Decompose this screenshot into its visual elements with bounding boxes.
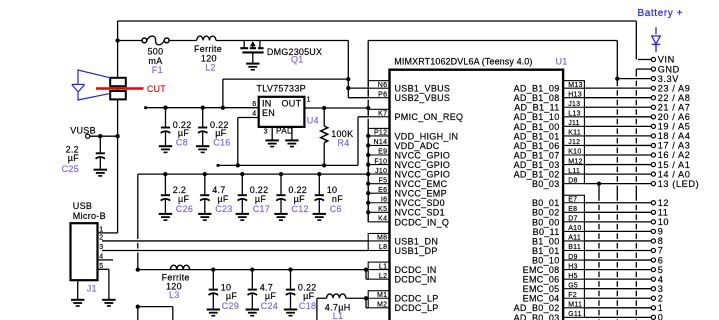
junction C16 tap	[201, 106, 205, 110]
capacitor C12 0.22µF	[274, 174, 287, 220]
svg-text:B1_01: B1_01	[532, 246, 560, 256]
svg-text:F10: F10	[374, 158, 387, 165]
svg-text:AD_B1_06: AD_B1_06	[514, 141, 560, 151]
svg-text:C18: C18	[299, 301, 316, 311]
svg-text:CUT: CUT	[147, 84, 166, 94]
wire to pad 8	[584, 240, 651, 242]
svg-text:L13: L13	[568, 111, 581, 118]
svg-text:13 (LED): 13 (LED)	[658, 179, 700, 189]
junction 3.3V bus pin row 6	[366, 143, 370, 147]
svg-text:H13: H13	[568, 91, 582, 98]
svg-text:L1: L1	[379, 263, 387, 270]
wire U4 OUT to 3.3V bus	[304, 107, 368, 109]
capacitor C16 0.22uF	[196, 108, 209, 153]
wire branch to DCDC_LP M2 pin	[365, 298, 367, 308]
svg-text:EMC_04: EMC_04	[523, 294, 560, 304]
svg-text:B1_00: B1_00	[532, 236, 560, 246]
svg-text:R4: R4	[337, 138, 349, 148]
svg-text:USB1_VBUS: USB1_VBUS	[395, 84, 451, 94]
svg-text:11: 11	[658, 208, 669, 218]
junction C26 tap	[163, 172, 167, 176]
svg-text:M1: M1	[377, 292, 387, 299]
pad circle 5	[651, 268, 655, 272]
svg-text:DCDC_IN: DCDC_IN	[395, 265, 437, 275]
resistor R4 100K	[321, 108, 328, 165]
wire to pad 11	[584, 211, 651, 213]
svg-text:E8: E8	[568, 206, 577, 213]
pad circle 23 / A9	[651, 86, 655, 90]
junction pin 13 LED tap	[597, 182, 601, 186]
wire 5V fuse feed to fuse F1	[118, 40, 142, 42]
svg-text:D8: D8	[568, 177, 578, 184]
junction 3.3V bus pin row 9	[366, 172, 370, 176]
U1 pin number cells left K7-K7	[368, 109, 389, 117]
svg-text:EMC_06: EMC_06	[523, 275, 560, 285]
svg-text:M8: M8	[377, 235, 387, 242]
svg-text:J1: J1	[87, 283, 97, 293]
pad circle 14 / A0	[651, 172, 655, 176]
svg-text:K11: K11	[568, 130, 581, 137]
svg-text:2: 2	[658, 293, 664, 303]
svg-text:USB1_DP: USB1_DP	[395, 246, 438, 256]
svg-text:20 / A6: 20 / A6	[658, 112, 691, 122]
inductor ferrite L3	[170, 265, 189, 269]
junction 3.3V bus pin row 10	[366, 182, 370, 186]
pad circle 15 / A1	[651, 162, 655, 166]
svg-text:AD_B1_01: AD_B1_01	[514, 131, 560, 141]
svg-text:A11: A11	[568, 235, 581, 242]
svg-text:C24: C24	[261, 301, 278, 311]
wire to pad 7	[584, 250, 651, 252]
wire regulator input rail	[146, 107, 259, 109]
wire VIN riser	[635, 21, 637, 60]
svg-text:P12: P12	[374, 130, 387, 137]
junction C24 tap	[250, 267, 254, 271]
junction R4 top	[322, 106, 326, 110]
pad circle 13 (LED)	[651, 182, 655, 186]
svg-text:3.3V: 3.3V	[658, 74, 680, 84]
wire J1 pin1 riser to cut-pad column	[102, 232, 118, 234]
junction C25 tap	[98, 134, 102, 138]
wire J1 pin4 stub	[98, 259, 114, 261]
ground for Q1 gate	[246, 64, 259, 70]
wire NVCC cap rail	[138, 173, 368, 175]
svg-text:F1: F1	[152, 65, 163, 75]
svg-text:USB2_VBUS: USB2_VBUS	[395, 93, 451, 103]
svg-text:PMIC_ON_REQ: PMIC_ON_REQ	[395, 112, 464, 122]
wire VUSB top rail from cut-pad column to VIN riser	[118, 20, 637, 22]
wire to pad 15 / A1	[584, 164, 651, 166]
junction R4 bottom	[322, 163, 326, 167]
svg-text:17 / A3: 17 / A3	[658, 141, 691, 151]
U1 pin number cells left N6-P6	[368, 81, 389, 98]
capacitor C23 4.7µF	[198, 174, 211, 220]
wire branch to DCDC_IN L2 pin	[365, 270, 367, 280]
svg-text:B0_01: B0_01	[532, 198, 560, 208]
junction C17 tap	[240, 172, 244, 176]
svg-text:PAD: PAD	[276, 126, 293, 136]
svg-text:D9: D9	[568, 254, 578, 261]
svg-text:E7: E7	[568, 196, 577, 203]
svg-text:19 / A5: 19 / A5	[658, 122, 691, 132]
svg-text:18 / A4: 18 / A4	[658, 131, 691, 141]
svg-text:AD_B1_00: AD_B1_00	[514, 122, 560, 132]
fuse F1 500mA	[142, 36, 169, 45]
wire EN-PMIC net horizontal	[218, 164, 358, 166]
wire to pad 5	[584, 269, 651, 271]
U1 pin number cells right M13-D8	[563, 81, 584, 184]
svg-text:K10: K10	[568, 149, 581, 156]
svg-text:USB1_DN: USB1_DN	[395, 236, 439, 246]
wire to pad 17 / A3	[584, 144, 651, 146]
ground for J1 pin5	[102, 300, 115, 306]
pad circle 12	[651, 201, 655, 205]
wire to pad GND	[636, 68, 651, 70]
wire to pad 12	[584, 202, 651, 204]
svg-text:µF: µF	[255, 194, 266, 204]
wire USB1_DP from J1 pin3 to U1	[102, 250, 368, 252]
capacitor C25 2.2uF	[94, 136, 107, 176]
wire to pad 1	[584, 307, 651, 309]
svg-text:AD_B1_09: AD_B1_09	[514, 84, 560, 94]
svg-text:µF: µF	[294, 194, 305, 204]
svg-text:3: 3	[99, 244, 103, 251]
wire left riser to bottom edge	[137, 307, 139, 320]
junction C23 tap	[203, 172, 207, 176]
svg-text:23 / A9: 23 / A9	[658, 83, 691, 93]
svg-text:K4: K4	[378, 216, 387, 223]
wire U4 PAD ground stub	[291, 127, 293, 140]
svg-text:J12: J12	[568, 139, 580, 146]
wire to pad 10	[584, 221, 651, 223]
svg-text:9: 9	[658, 227, 664, 237]
svg-text:MIMXRT1062DVL6A (Teensy 4.0): MIMXRT1062DVL6A (Teensy 4.0)	[394, 57, 532, 67]
wire 3.3V riser	[616, 41, 618, 87]
wire USB1_VBUS pin stub	[348, 87, 368, 89]
capacitor C26 2.2µF	[159, 174, 172, 220]
svg-text:P6: P6	[378, 91, 387, 98]
wire red CUT marker	[96, 87, 144, 90]
pad circle 19 / A5	[651, 124, 655, 128]
svg-text:U4: U4	[307, 115, 319, 125]
svg-text:L3: L3	[169, 290, 180, 300]
svg-text:F2: F2	[568, 292, 577, 299]
wire J1 pin1 stub	[98, 232, 103, 234]
wire to pad VIN	[638, 59, 651, 61]
svg-text:N6: N6	[378, 82, 388, 89]
wire to pad 18 / A4	[584, 135, 651, 137]
wire to pad 22 / A8	[584, 97, 651, 99]
capacitor C24 4.7uF	[246, 270, 259, 316]
svg-text:DCDC_IN: DCDC_IN	[395, 275, 437, 285]
wire to pad 20 / A6	[584, 116, 651, 118]
svg-text:AD_B1_11: AD_B1_11	[514, 103, 559, 113]
svg-text:M11: M11	[568, 302, 582, 309]
svg-text:C23: C23	[215, 204, 232, 214]
svg-text:C26: C26	[176, 204, 193, 214]
svg-text:IN: IN	[262, 99, 272, 109]
svg-text:VUSB: VUSB	[70, 125, 96, 135]
wire J1 shield ground drop	[77, 280, 79, 299]
wire to pad 19 / A5	[584, 125, 651, 127]
junction 3.3V bus pin row 7	[366, 153, 370, 157]
svg-text:C12: C12	[291, 204, 308, 214]
svg-text:B11: B11	[568, 244, 581, 251]
svg-text:NVCC_EMC: NVCC_EMC	[395, 179, 448, 189]
svg-text:µF: µF	[265, 291, 276, 301]
capacitor C8 0.22uF	[159, 108, 172, 153]
svg-text:2: 2	[99, 235, 103, 242]
svg-text:USB: USB	[73, 201, 92, 211]
diode battery isolation (blue)	[652, 27, 661, 52]
U1 pin number cells left M1-M2	[368, 291, 389, 308]
svg-text:TLV75733P: TLV75733P	[256, 84, 306, 94]
wire VBUS drop to USB VBUS pins	[347, 41, 349, 98]
junction 3.3V pad tap	[615, 76, 619, 80]
svg-text:OUT: OUT	[282, 99, 302, 109]
pad circle VIN	[651, 57, 655, 61]
svg-text:Micro-B: Micro-B	[73, 211, 106, 221]
wire to pad 23 / A9	[584, 87, 651, 89]
svg-text:M2: M2	[377, 302, 387, 309]
svg-text:L2: L2	[205, 63, 216, 73]
wire 3.3V vertical bus at U1 left edge	[367, 41, 369, 87]
junction C6 tap	[317, 172, 321, 176]
pad circle 8	[651, 239, 655, 243]
svg-text:G5: G5	[568, 282, 578, 289]
junction bottom-left rail	[136, 304, 140, 308]
svg-text:12: 12	[658, 198, 669, 208]
solder pad top (cut jumper)	[110, 78, 126, 86]
svg-text:L1: L1	[333, 311, 344, 320]
svg-text:GND: GND	[658, 64, 680, 74]
svg-text:µF: µF	[215, 128, 226, 138]
svg-text:NVCC_GPIO: NVCC_GPIO	[395, 150, 451, 160]
IC U1 MIMXRT1062DVL6A body	[390, 70, 564, 320]
svg-text:D7: D7	[568, 216, 578, 223]
svg-text:N14: N14	[374, 139, 388, 146]
ground for U4 pin3	[266, 140, 279, 146]
wire J1 pin5 ground drop	[108, 269, 110, 299]
U1 pin number cells left L1-L2	[368, 262, 389, 279]
pad circle 0	[651, 315, 655, 319]
wire vertical VUSB/cut-pad column x=117.6	[117, 21, 119, 233]
wire DCDC_IN rail	[138, 269, 368, 271]
svg-text:L11: L11	[568, 168, 580, 175]
wire PMIC_ON_REQ stub	[358, 116, 368, 118]
pad circle 18 / A4	[651, 134, 655, 138]
svg-text:M12: M12	[568, 158, 583, 165]
ground for U4 PAD	[285, 140, 298, 146]
svg-text:µF: µF	[303, 291, 314, 301]
svg-text:AD_B0_03: AD_B0_03	[514, 313, 560, 320]
wire to pad 4	[584, 278, 651, 280]
U1 pin number cells right E7-G11	[563, 195, 584, 317]
junction 3.3V bus pin row 5	[366, 134, 370, 138]
wire USB1_DN from J1 pin2 to U1	[102, 240, 368, 242]
wire bottom-left rail	[137, 306, 173, 308]
svg-text:K7: K7	[378, 111, 387, 118]
svg-text:C29: C29	[222, 301, 239, 311]
svg-text:DCDC_LP: DCDC_LP	[395, 294, 439, 304]
wire GND riser	[635, 69, 637, 77]
wire to pad 2	[584, 297, 651, 299]
solder pad bottom (cut jumper)	[110, 91, 126, 99]
junction DCDC_LP branch	[364, 296, 368, 300]
capacitor C29 10uF	[207, 270, 220, 316]
svg-text:1: 1	[658, 303, 664, 313]
svg-text:15 / A1: 15 / A1	[658, 160, 691, 170]
svg-text:H3: H3	[568, 263, 578, 270]
pad circle 21 / A7	[651, 105, 655, 109]
pad circle 17 / A3	[651, 143, 655, 147]
wire to pad 16 / A2	[584, 154, 651, 156]
svg-text:AD_B1_03: AD_B1_03	[514, 160, 560, 170]
junction VBUS feed tap	[221, 106, 225, 110]
wire USB2_VBUS pin stub	[348, 97, 368, 99]
junction DCDC_IN to L2 pin branch	[364, 267, 368, 271]
svg-text:J13: J13	[568, 101, 580, 108]
svg-text:AD_B1_10: AD_B1_10	[514, 112, 560, 122]
svg-text:10: 10	[658, 217, 669, 227]
pad circle 3.3V	[651, 77, 655, 81]
svg-text:B0_02: B0_02	[532, 208, 560, 218]
svg-text:DCDC_IN_Q: DCDC_IN_Q	[395, 217, 450, 227]
U1 pin number cells left P12-K4	[368, 128, 389, 221]
junction EN riser	[236, 163, 240, 167]
svg-text:C25: C25	[62, 164, 79, 174]
wire VBUS feed riser	[222, 79, 224, 108]
svg-text:nF: nF	[332, 194, 343, 204]
svg-text:E6: E6	[378, 187, 387, 194]
svg-text:VIN: VIN	[658, 55, 675, 65]
svg-text:G11: G11	[568, 311, 582, 318]
svg-text:µF: µF	[217, 194, 228, 204]
svg-text:AD_B1_02: AD_B1_02	[514, 170, 560, 180]
wire fuse to ferrite L2	[169, 40, 197, 42]
svg-text:1: 1	[307, 97, 311, 104]
pad circle 4	[651, 277, 655, 281]
svg-text:J11: J11	[568, 120, 580, 127]
wire VBUS feed horizontal	[223, 78, 349, 80]
connector J1 body	[71, 223, 98, 280]
wire L1 to DCDC_LP pin	[346, 297, 368, 299]
pad circle 11	[651, 210, 655, 214]
capacitor C18 0.22uF	[284, 270, 297, 316]
junction 3.3V bus pin row 8	[366, 162, 370, 166]
pad circle 7	[651, 248, 655, 252]
pad circle 20 / A6	[651, 115, 655, 119]
junction USB1_VBUS	[346, 86, 350, 90]
pad circle GND	[651, 67, 655, 71]
junction VUSB column	[115, 134, 119, 138]
wire U4 pin3 ground stub	[271, 127, 273, 140]
pad circle 10	[651, 220, 655, 224]
svg-text:0: 0	[658, 313, 664, 320]
svg-text:B0_11: B0_11	[533, 227, 560, 237]
junction C29 tap	[211, 267, 215, 271]
end square regulator input rail	[144, 106, 147, 109]
end square EN net	[217, 164, 220, 167]
svg-text:F5: F5	[379, 177, 388, 184]
svg-text:8: 8	[658, 236, 664, 246]
junction VBUS feed	[346, 77, 350, 81]
wire to pad 3.3V	[617, 78, 651, 80]
svg-text:DCDC_LP: DCDC_LP	[395, 303, 439, 313]
inductor ferrite L2	[197, 36, 216, 40]
junction C18 tap	[288, 267, 292, 271]
pad circle 6	[651, 258, 655, 262]
svg-text:L2: L2	[379, 273, 387, 280]
wire U4 EN stub	[238, 117, 259, 119]
svg-text:M13: M13	[568, 82, 583, 89]
svg-text:7: 7	[658, 246, 664, 256]
junction OUT at 3.3V bus	[366, 106, 370, 110]
svg-text:Q1: Q1	[291, 55, 304, 65]
wire to pad 14 / A0	[584, 173, 651, 175]
svg-text:VDD_HIGH_IN: VDD_HIGH_IN	[395, 131, 459, 141]
svg-text:21 / A7: 21 / A7	[658, 102, 691, 112]
pad circle 9	[651, 229, 655, 233]
junction C12 tap	[279, 172, 283, 176]
svg-text:C16: C16	[213, 138, 230, 148]
wire to pad 3	[584, 288, 651, 290]
svg-text:3: 3	[264, 129, 268, 136]
U1 pin number cells left M8-L8	[368, 233, 389, 250]
svg-text:µF: µF	[226, 291, 237, 301]
svg-text:EN: EN	[262, 108, 275, 118]
svg-text:B0_10: B0_10	[532, 255, 560, 265]
transistor Q1 DMG2305UX P-MOSFET	[240, 41, 263, 64]
wire J1 pin5 stub	[98, 268, 109, 270]
inductor L1 4.7uH	[327, 294, 346, 298]
svg-text:VDD_ADC: VDD_ADC	[395, 141, 440, 151]
wire VUSB pad to column	[90, 135, 118, 137]
svg-text:L8: L8	[379, 244, 387, 251]
svg-text:6: 6	[252, 101, 256, 108]
svg-text:NVCC_SD0: NVCC_SD0	[395, 198, 445, 208]
svg-text:C8: C8	[176, 138, 188, 148]
svg-text:NVCC_GPIO: NVCC_GPIO	[395, 170, 451, 180]
svg-text:B0_00: B0_00	[532, 217, 560, 227]
svg-text:Battery +: Battery +	[638, 8, 684, 19]
svg-text:µF: µF	[178, 194, 189, 204]
svg-text:K5: K5	[378, 206, 387, 213]
junction C8 tap	[163, 106, 167, 110]
svg-text:EMC_08: EMC_08	[523, 265, 560, 275]
wire 3.3V top rail to right	[368, 40, 617, 42]
svg-text:NVCC_EMP: NVCC_EMP	[395, 189, 447, 199]
svg-text:B0_03: B0_03	[532, 179, 560, 189]
wire U4 EN riser	[237, 118, 239, 166]
junction 3.3V bus pin row 13	[366, 210, 370, 214]
svg-text:U1: U1	[556, 57, 568, 67]
svg-text:J10: J10	[375, 168, 387, 175]
pad circle 16 / A2	[651, 153, 655, 157]
cut-here flag symbol (blue)	[72, 70, 111, 100]
wire to pad 0	[584, 316, 651, 318]
svg-text:EMC_05: EMC_05	[523, 284, 560, 294]
op-amp U4 TLV75733P body	[259, 97, 305, 127]
capacitor C17 0.22µF	[236, 174, 249, 220]
svg-text:AD_B0_02: AD_B0_02	[514, 303, 560, 313]
wire to pad 13 (LED)	[584, 183, 651, 185]
svg-text:I6: I6	[381, 196, 387, 203]
pad circle VUSB	[86, 134, 90, 138]
svg-text:16 / A2: 16 / A2	[658, 150, 691, 160]
junction 3.3V bus pin row 12	[366, 201, 370, 205]
wire NVCC rail drop to DCDC section	[137, 174, 139, 239]
